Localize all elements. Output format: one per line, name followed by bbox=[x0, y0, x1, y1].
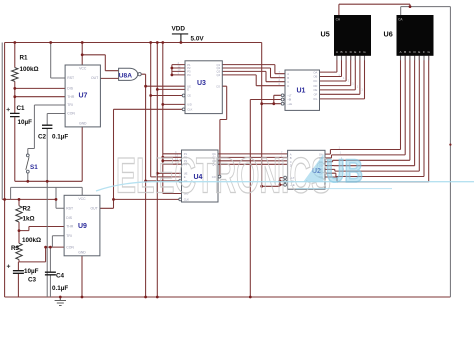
svg-text:10µF: 10µF bbox=[18, 119, 33, 126]
svg-text:B: B bbox=[340, 50, 342, 54]
svg-text:UB: UB bbox=[326, 153, 363, 189]
svg-text:P2: P2 bbox=[187, 66, 191, 70]
svg-text:DIS: DIS bbox=[67, 87, 73, 91]
svg-text:C2: C2 bbox=[38, 133, 47, 140]
svg-text:100kΩ: 100kΩ bbox=[22, 237, 41, 244]
svg-text:OC: OC bbox=[313, 79, 317, 83]
svg-text:A: A bbox=[287, 72, 289, 76]
svg-text:R3: R3 bbox=[11, 245, 20, 252]
svg-text:OE: OE bbox=[313, 88, 317, 92]
svg-text:U5: U5 bbox=[321, 30, 330, 39]
svg-text:E: E bbox=[354, 50, 356, 54]
svg-text:U1: U1 bbox=[297, 88, 306, 95]
svg-text:Q2: Q2 bbox=[217, 66, 221, 70]
svg-text:GND: GND bbox=[78, 251, 86, 255]
svg-text:DIS: DIS bbox=[66, 216, 72, 220]
svg-text:0.1µF: 0.1µF bbox=[52, 285, 68, 292]
svg-text:10µF: 10µF bbox=[24, 268, 39, 275]
svg-text:VCC: VCC bbox=[79, 67, 87, 71]
svg-text:5.0V: 5.0V bbox=[191, 36, 205, 43]
svg-text:OA: OA bbox=[313, 70, 317, 74]
svg-text:Q3: Q3 bbox=[217, 70, 221, 74]
svg-text:CON: CON bbox=[66, 245, 74, 249]
svg-text:D: D bbox=[287, 84, 289, 88]
svg-text:C: C bbox=[287, 80, 289, 84]
svg-text:U7: U7 bbox=[79, 93, 88, 100]
svg-text:CO: CO bbox=[216, 84, 220, 88]
svg-text:B: B bbox=[287, 76, 289, 80]
svg-text:C1: C1 bbox=[17, 105, 26, 112]
svg-text:~BI: ~BI bbox=[287, 98, 291, 102]
svg-text:RST: RST bbox=[67, 76, 74, 80]
svg-text:CE: CE bbox=[187, 94, 191, 98]
svg-text:CON: CON bbox=[67, 112, 75, 116]
svg-text:~LE: ~LE bbox=[287, 102, 292, 106]
svg-text:OB: OB bbox=[313, 75, 317, 79]
svg-text:U8A: U8A bbox=[119, 72, 132, 79]
svg-text:Q4: Q4 bbox=[217, 73, 221, 77]
svg-text:1kΩ: 1kΩ bbox=[23, 215, 35, 222]
svg-text:TRI: TRI bbox=[67, 103, 73, 107]
svg-text:100kΩ: 100kΩ bbox=[20, 66, 39, 73]
svg-text:OG: OG bbox=[313, 97, 317, 101]
svg-text:P4: P4 bbox=[187, 73, 191, 77]
svg-text:E: E bbox=[418, 50, 420, 54]
svg-text:F: F bbox=[359, 50, 361, 54]
svg-text:U6: U6 bbox=[384, 30, 393, 39]
svg-text:E: E bbox=[187, 88, 189, 92]
svg-text:S1: S1 bbox=[30, 164, 38, 171]
svg-text:OD: OD bbox=[313, 84, 317, 88]
svg-text:CLK: CLK bbox=[187, 108, 192, 112]
svg-text:VDD: VDD bbox=[172, 26, 186, 33]
svg-text:R2: R2 bbox=[23, 206, 32, 213]
svg-text:P3: P3 bbox=[187, 70, 191, 74]
svg-text:~LT: ~LT bbox=[287, 94, 292, 98]
svg-text:U/D: U/D bbox=[187, 103, 192, 107]
svg-text:OUT: OUT bbox=[91, 76, 98, 80]
svg-text:B: B bbox=[404, 50, 406, 54]
svg-text:U3: U3 bbox=[197, 80, 206, 87]
svg-text:F: F bbox=[423, 50, 425, 54]
svg-text:R1: R1 bbox=[20, 55, 29, 62]
svg-text:GND: GND bbox=[79, 122, 87, 126]
svg-text:ELECTRONICS: ELECTRONICS bbox=[116, 148, 331, 204]
svg-text:C4: C4 bbox=[56, 272, 65, 279]
svg-text:TRI: TRI bbox=[66, 234, 72, 238]
svg-text:0.1µF: 0.1µF bbox=[52, 133, 68, 140]
svg-text:OUT: OUT bbox=[91, 207, 98, 211]
svg-text:THR: THR bbox=[66, 225, 74, 229]
svg-text:U9: U9 bbox=[78, 223, 87, 230]
svg-text:VCC: VCC bbox=[78, 197, 86, 201]
svg-text:RST: RST bbox=[66, 207, 73, 211]
svg-text:THR: THR bbox=[67, 95, 75, 99]
svg-text:C3: C3 bbox=[28, 277, 37, 284]
svg-text:Q1: Q1 bbox=[217, 63, 221, 67]
svg-text:P1: P1 bbox=[187, 63, 191, 67]
svg-text:OF: OF bbox=[314, 93, 318, 97]
